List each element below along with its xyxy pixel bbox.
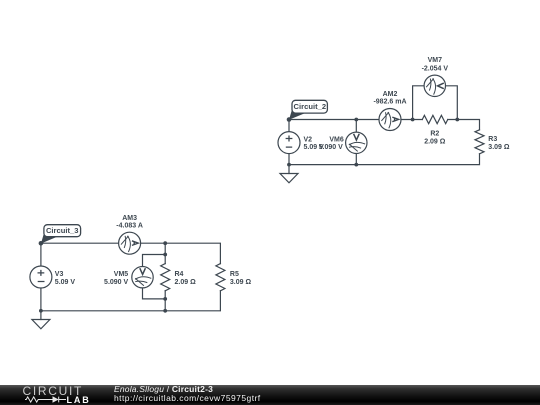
svg-text:-4.083 A: -4.083 A <box>116 222 143 229</box>
svg-text:V2: V2 <box>304 136 313 143</box>
svg-text:3.09 Ω: 3.09 Ω <box>488 144 510 151</box>
svg-text:Circuit_2: Circuit_2 <box>294 102 327 111</box>
svg-text:VM6: VM6 <box>329 136 344 143</box>
svg-text:R3: R3 <box>488 136 497 143</box>
svg-text:Circuit_3: Circuit_3 <box>46 226 79 235</box>
svg-text:VM7: VM7 <box>428 57 443 64</box>
svg-text:-2.054 V: -2.054 V <box>422 65 449 72</box>
svg-text:VM5: VM5 <box>114 271 129 278</box>
svg-text:3.09 Ω: 3.09 Ω <box>230 279 252 286</box>
svg-text:2.09 Ω: 2.09 Ω <box>175 279 197 286</box>
svg-text:R4: R4 <box>175 271 184 278</box>
svg-text:-982.6 mA: -982.6 mA <box>373 99 406 106</box>
svg-text:LAB: LAB <box>67 395 91 405</box>
svg-text:R2: R2 <box>430 131 439 138</box>
svg-text:R5: R5 <box>230 271 239 278</box>
svg-text:2.09 Ω: 2.09 Ω <box>424 139 446 146</box>
svg-text:AM3: AM3 <box>122 215 137 222</box>
svg-text:5.090 V: 5.090 V <box>104 279 128 286</box>
svg-text:5.09 V: 5.09 V <box>55 279 76 286</box>
svg-text:AM2: AM2 <box>383 91 398 98</box>
svg-text:V3: V3 <box>55 271 64 278</box>
svg-text:5.090 V: 5.090 V <box>319 144 343 151</box>
